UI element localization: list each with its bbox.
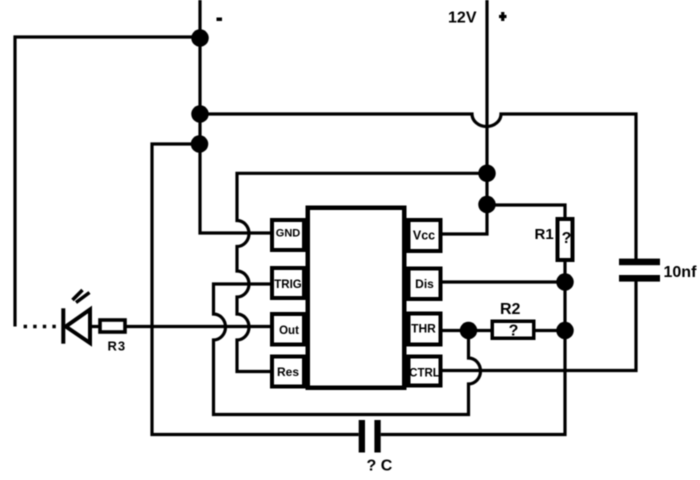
svg-text:?: ? bbox=[562, 230, 572, 247]
svg-text:R3: R3 bbox=[108, 339, 127, 354]
wire: top link y=114 from node to right rail with hop over 12V rail, down to 10nf bbox=[200, 114, 636, 259]
LED D1 light slash 2 bbox=[76, 293, 90, 303]
node: junction dot THR right bbox=[556, 322, 574, 340]
pin GND box bbox=[272, 220, 304, 250]
svg-text:R1: R1 bbox=[535, 226, 554, 243]
svg-text:TRIG: TRIG bbox=[274, 279, 302, 291]
LED D1 light slash 1 bbox=[73, 290, 83, 300]
wire: 12V positive rail vertical x=487 down to Vcc stub bbox=[442, 0, 487, 234]
capacitor C1 (? C) right plate bbox=[374, 420, 380, 453]
svg-text:?: ? bbox=[509, 323, 519, 340]
pin Vcc box bbox=[409, 220, 441, 251]
pin Dis box bbox=[409, 269, 441, 300]
LED D1 cathode bar bbox=[61, 308, 65, 343]
pin Res box bbox=[272, 357, 304, 387]
capacitor C1 (? C) left plate bbox=[359, 420, 365, 453]
svg-text:CTRL: CTRL bbox=[409, 367, 440, 379]
wire: THR wire through R2 to junction bbox=[442, 329, 565, 332]
node: junction dot on 12V rail y=204 bbox=[478, 196, 496, 214]
wire: Dis wire to junction bbox=[442, 280, 565, 283]
svg-text:THR: THR bbox=[411, 322, 436, 336]
resistor R2 box bbox=[492, 321, 534, 338]
capacitor C2 10nf bottom plate bbox=[619, 275, 660, 282]
wire: reset link from 12V node y=173 left, down x=237 with hops over GND/TRIG/Out wires, to Res pin bbox=[237, 173, 487, 371]
resistor R1 box bbox=[558, 219, 573, 260]
node: junction dot Dis/R1 bbox=[556, 273, 574, 291]
svg-text:Vcc: Vcc bbox=[413, 228, 435, 242]
label: battery plus horizontal bar bbox=[499, 15, 507, 18]
svg-text:Out: Out bbox=[279, 325, 299, 337]
svg-text:10nf: 10nf bbox=[664, 264, 698, 281]
wire: left rail y=37 from x=200 to left edge then down left side bbox=[15, 37, 200, 327]
svg-text:Res: Res bbox=[277, 365, 299, 379]
resistor R3 box bbox=[100, 320, 125, 332]
wire: CTRL wire right to x=636 then up to 10nf bottom bbox=[442, 281, 636, 371]
svg-text:GND: GND bbox=[276, 228, 301, 240]
pin CTRL box bbox=[409, 357, 441, 386]
svg-text:12V: 12V bbox=[448, 10, 477, 27]
svg-text:Dis: Dis bbox=[415, 277, 434, 291]
node: junction dot on negative rail y=114 bbox=[191, 105, 209, 123]
svg-text:R2: R2 bbox=[500, 301, 521, 318]
LED D1 triangle bbox=[66, 310, 90, 344]
pin Out box bbox=[272, 314, 304, 345]
pin TRIG box bbox=[272, 268, 304, 298]
node: junction dot THR left bbox=[460, 322, 478, 340]
node: junction dot on negative rail y=38 bbox=[191, 29, 209, 47]
wire: TRIG link from TRIG pin left, down x=213.5 with hop over Out wire, along y=414.5, up x=468.5 with hop over CTRL wire to THR node bbox=[214, 284, 481, 415]
capacitor C2 10nf top plate bbox=[619, 259, 660, 266]
label: battery plus vertical bar bbox=[501, 12, 504, 21]
node: junction dot on negative rail y=143.5 bbox=[191, 135, 209, 153]
wire: y=143.5 link from node left then down x=152 to bottom, right to cap C bbox=[152, 144, 359, 435]
svg-text:? C: ? C bbox=[367, 458, 393, 475]
wire: Out wire y=326.5 from LED through R3 to Out pin bbox=[90, 325, 272, 328]
wire: dashed segment to LED cathode bbox=[24, 325, 57, 328]
label: battery minus bbox=[217, 18, 223, 22]
node: junction dot on 12V rail y=173 bbox=[478, 165, 496, 183]
IC body U1 555 timer bbox=[308, 208, 405, 388]
wire: negative rail vertical x=200 from top, turning right to GND pin bbox=[200, 0, 270, 233]
wire: bottom right from cap C to x=565, up through THR/Dis junctions to R1 and over to 12V node bbox=[381, 205, 565, 435]
pin THR box bbox=[409, 314, 441, 345]
